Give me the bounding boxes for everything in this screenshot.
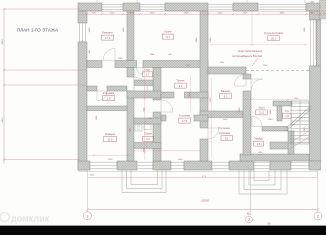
svg-text:12,8: 12,8	[107, 137, 113, 141]
WC fixtures	[135, 125, 151, 132]
interior wall H1 middle segment	[115, 61, 137, 68]
door arc V3 lower	[208, 128, 219, 139]
room label Санузел у лестницы	[283, 109, 292, 119]
svg-text:20,1: 20,1	[271, 36, 277, 40]
top exterior wall segment 2	[123, 3, 140, 11]
svg-text:теплоснабжения Юд 9м2: теплоснабжения Юд 9м2	[232, 54, 263, 58]
door arc V2 hall	[161, 100, 173, 112]
room label Гостиная	[179, 114, 191, 124]
window W7 in bottom wall	[90, 162, 117, 169]
window W1 in top wall	[102, 4, 123, 10]
svg-text:2500: 2500	[243, 13, 249, 15]
svg-text:1,9: 1,9	[285, 114, 289, 118]
porch steps left group	[122, 170, 166, 193]
right exterior wall lower part	[310, 66, 321, 161]
watermark logo circle	[0, 212, 9, 221]
dashed zone boundary line	[246, 70, 309, 72]
red dimension chain x190	[189, 75, 191, 113]
room label Кладовка (left)	[103, 91, 115, 101]
left outer dimension line	[2, 8, 87, 164]
interior wall H-living top segment a	[161, 115, 166, 121]
door arc room V1	[134, 77, 148, 91]
svg-text:Гостиная: Гостиная	[179, 114, 190, 118]
svg-text:4300: 4300	[184, 13, 190, 15]
interior wall H1 left segment	[87, 61, 102, 68]
interior wall H2 right of hall segment a	[208, 67, 246, 74]
tambour inner bottom wall	[240, 154, 309, 161]
faint partition line in dining room	[251, 11, 253, 45]
bottom exterior wall corner SE	[309, 161, 321, 170]
svg-text:Комната: Комната	[105, 132, 116, 136]
room label Гостиная-прихожая (two lines)	[219, 126, 233, 141]
plan title	[17, 28, 58, 33]
interior wall V4 main	[243, 91, 251, 155]
top interior dimension chain lines	[80, 11, 326, 15]
room label Ванная (right)	[220, 89, 232, 99]
plinth line below bottom wall	[78, 170, 318, 172]
room label Гардероб (small top-middle)	[143, 67, 153, 77]
interior wall H-living top segment b	[194, 115, 208, 121]
window W8b in bottom wall	[171, 162, 184, 169]
svg-text:2140: 2140	[110, 13, 116, 15]
svg-text:1,7: 1,7	[146, 73, 150, 77]
svg-text:15000: 15000	[201, 198, 209, 202]
room label Санузел (bottom-middle)	[143, 132, 154, 142]
left exterior wall upper part	[78, 11, 87, 23]
svg-text:5А: 5А	[268, 222, 271, 225]
axis circle 2	[314, 212, 322, 220]
black bottom bar	[0, 226, 326, 235]
interior wall V3 lower	[200, 139, 208, 161]
middle axis marker Б	[246, 212, 253, 223]
svg-text:Тамбур: Тамбур	[254, 137, 263, 141]
svg-text:1,8: 1,8	[107, 96, 111, 100]
svg-text:5,2: 5,2	[224, 94, 228, 98]
overall dimension line 15000	[86, 198, 319, 210]
right edge wall fragment beyond axis	[320, 0, 326, 19]
interior wall V1 mid segment	[127, 68, 134, 78]
small red mark above black bar	[268, 222, 271, 225]
svg-text:ПЛАН 1-ГО ЭТАЖА: ПЛАН 1-ГО ЭТАЖА	[17, 28, 58, 33]
svg-text:2500: 2500	[218, 13, 224, 15]
interior wall H6 stair bottom	[270, 142, 292, 149]
door arc tambour	[252, 117, 262, 127]
interior wall H5 tambour top	[262, 127, 288, 132]
zone annotation text	[232, 49, 263, 66]
svg-text:Зона приготовления: Зона приготовления	[238, 49, 263, 53]
interior wall V2 upper segment	[153, 68, 161, 101]
door arc wardrobe	[137, 68, 144, 75]
interior wall V5 stair side	[277, 106, 282, 121]
window W4 in top wall	[258, 4, 306, 10]
svg-text:1: 1	[87, 214, 89, 218]
interior wall H1 right segment	[143, 61, 208, 68]
svg-text:Холл: Холл	[258, 105, 265, 109]
svg-text:Комната: Комната	[102, 31, 113, 35]
door arc V4 bathroom2	[251, 79, 263, 91]
window W5 in left wall	[80, 23, 86, 42]
interior wall V4 upper	[243, 74, 251, 79]
window W2 in top wall	[140, 4, 165, 10]
svg-text:Гостиная-: Гостиная-	[219, 126, 231, 130]
room label Комната (bottom-left)	[104, 132, 117, 142]
interior small dimension marks	[89, 27, 306, 177]
svg-text:Кухня-столовая: Кухня-столовая	[264, 31, 283, 35]
door arc storage	[97, 91, 107, 101]
svg-text:Кладовка: Кладовка	[103, 91, 115, 95]
svg-text:17,1: 17,1	[105, 36, 111, 40]
svg-text:17,9: 17,9	[182, 119, 188, 123]
extension line stubs at top edge	[97, 0, 305, 3]
window W10 in bottom wall	[254, 162, 270, 169]
svg-text:3,8: 3,8	[257, 142, 261, 146]
top exterior wall segment 4	[233, 3, 258, 11]
window W3 in top wall	[208, 4, 233, 10]
porch steps right group	[239, 170, 287, 194]
top-right corner red marks	[310, 2, 325, 16]
interior wall H-left storage top segment a	[87, 86, 97, 91]
interior red dimension chain vertical center	[144, 70, 146, 160]
svg-text:2500: 2500	[150, 13, 156, 15]
svg-text:11,5: 11,5	[259, 111, 264, 115]
watermark text	[11, 214, 50, 224]
svg-text:Кухня: Кухня	[165, 30, 173, 34]
window W8 in bottom wall	[137, 162, 153, 169]
svg-text:3600: 3600	[2, 39, 4, 45]
svg-text:4400: 4400	[2, 117, 4, 123]
staircase lower flight diagonals	[288, 131, 309, 150]
staircase break diagonal	[286, 106, 311, 131]
svg-text:Гард.: Гард.	[144, 67, 151, 71]
interior wall wardrobe bottom	[134, 80, 153, 86]
axis circle 1	[84, 212, 92, 220]
red dimension line across dining room	[210, 44, 307, 46]
interior wall H-left storage top segment b	[107, 86, 127, 91]
room label Кухня-столовая (top-right)	[264, 31, 283, 41]
interior red dimension chain vertical right	[210, 78, 212, 158]
interior wall H-mid WC bottom	[134, 143, 161, 149]
svg-text:3,2: 3,2	[146, 137, 150, 141]
right extension line red	[315, 19, 317, 60]
middle axis line	[250, 170, 252, 212]
svg-text:8,1: 8,1	[225, 138, 229, 141]
bottom exterior wall segment 1	[78, 161, 90, 170]
staircase treads	[291, 101, 309, 144]
axis extension line right	[317, 170, 319, 212]
interior wall V3 upper (kitchen-dining left)	[200, 11, 208, 128]
room label Комната (top-left)	[101, 31, 114, 41]
bottom exterior wall segment 3b	[184, 161, 212, 170]
interior red dimension chain horizontal lower-left	[88, 154, 130, 156]
top exterior wall segment 3	[165, 3, 208, 11]
left exterior wall lower part	[78, 42, 87, 170]
interior wall V2 lower segment	[153, 112, 161, 161]
bottom exterior wall segment 3	[153, 161, 171, 170]
top exterior wall segment 1	[78, 3, 102, 11]
room label Холл	[256, 105, 267, 115]
interior wall H-mid WC top	[134, 118, 161, 124]
door arc hall-kitchen	[103, 49, 115, 61]
svg-text:9,1: 9,1	[166, 35, 170, 39]
room label Туалет (middle)	[175, 79, 187, 89]
svg-text:прихожая: прихожая	[219, 132, 231, 135]
window W11 in bottom wall	[291, 162, 309, 169]
right exterior wall outer shell at window	[317, 20, 321, 66]
interior wall bathroom bottom	[200, 111, 243, 118]
svg-text:4800: 4800	[280, 13, 286, 15]
door arc H2 corridor	[234, 74, 246, 86]
interior wall right of tambour	[288, 131, 294, 154]
interior wall H-mid small partition	[161, 92, 174, 98]
interior wall V1 upper (between room and kitchen)	[127, 11, 134, 61]
interior wall H-mid below wardrobe	[127, 91, 161, 98]
svg-text:2: 2	[317, 215, 319, 219]
interior wall H-mid small partition b	[185, 92, 209, 98]
terrace edge line	[88, 176, 318, 178]
room label Тамбур	[254, 137, 264, 147]
svg-text:Туалет: Туалет	[176, 79, 185, 83]
top exterior wall segment 5	[306, 3, 321, 11]
svg-text:3,1: 3,1	[179, 84, 183, 88]
svg-text:домклик: домклик	[11, 214, 50, 224]
interior red dimension chain horizontal lower	[134, 150, 200, 152]
axis extension line left	[87, 170, 89, 212]
room label Кухня	[162, 30, 174, 40]
right exterior wall upper part	[310, 11, 321, 20]
window W9 in bottom wall	[212, 162, 229, 169]
svg-text:Ванная: Ванная	[221, 89, 230, 93]
bottom exterior wall segment 4	[229, 161, 254, 170]
svg-text:С/узел: С/узел	[144, 132, 152, 136]
interior wall stair WC top	[273, 101, 292, 106]
window W6 in right wall	[311, 20, 317, 66]
svg-text:1700: 1700	[129, 13, 135, 15]
bottom exterior wall segment 2	[117, 161, 137, 170]
bottom exterior wall segment 5	[270, 161, 291, 170]
interior wall H-left storage bottom	[87, 106, 127, 111]
interior wall V1 lower segment	[127, 91, 134, 161]
svg-text:2: 2	[248, 218, 250, 222]
svg-text:Б1: Б1	[247, 212, 251, 216]
red dimension line above hall	[244, 98, 308, 100]
